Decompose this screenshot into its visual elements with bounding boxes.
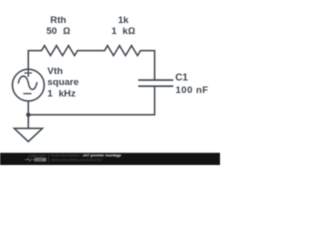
svg-text:Vth: Vth	[47, 66, 63, 77]
svg-text:1k: 1k	[118, 15, 129, 26]
svg-text:100 nF: 100 nF	[176, 85, 209, 96]
svg-text:square: square	[47, 77, 78, 88]
svg-text:1 kHz: 1 kHz	[47, 88, 75, 99]
svg-text:LAB: LAB	[35, 158, 43, 162]
svg-text:Rth: Rth	[50, 15, 66, 26]
svg-text:www.circuitlab.com/cabx362: www.circuitlab.com/cabx362	[50, 158, 103, 162]
svg-text:1 kΩ: 1 kΩ	[111, 26, 135, 37]
svg-text:Robert|nGallant : ch7 premier: Robert|nGallant : ch7 premier montage	[51, 154, 121, 158]
svg-text:50 Ω: 50 Ω	[46, 26, 70, 37]
svg-text:C1: C1	[175, 73, 188, 84]
